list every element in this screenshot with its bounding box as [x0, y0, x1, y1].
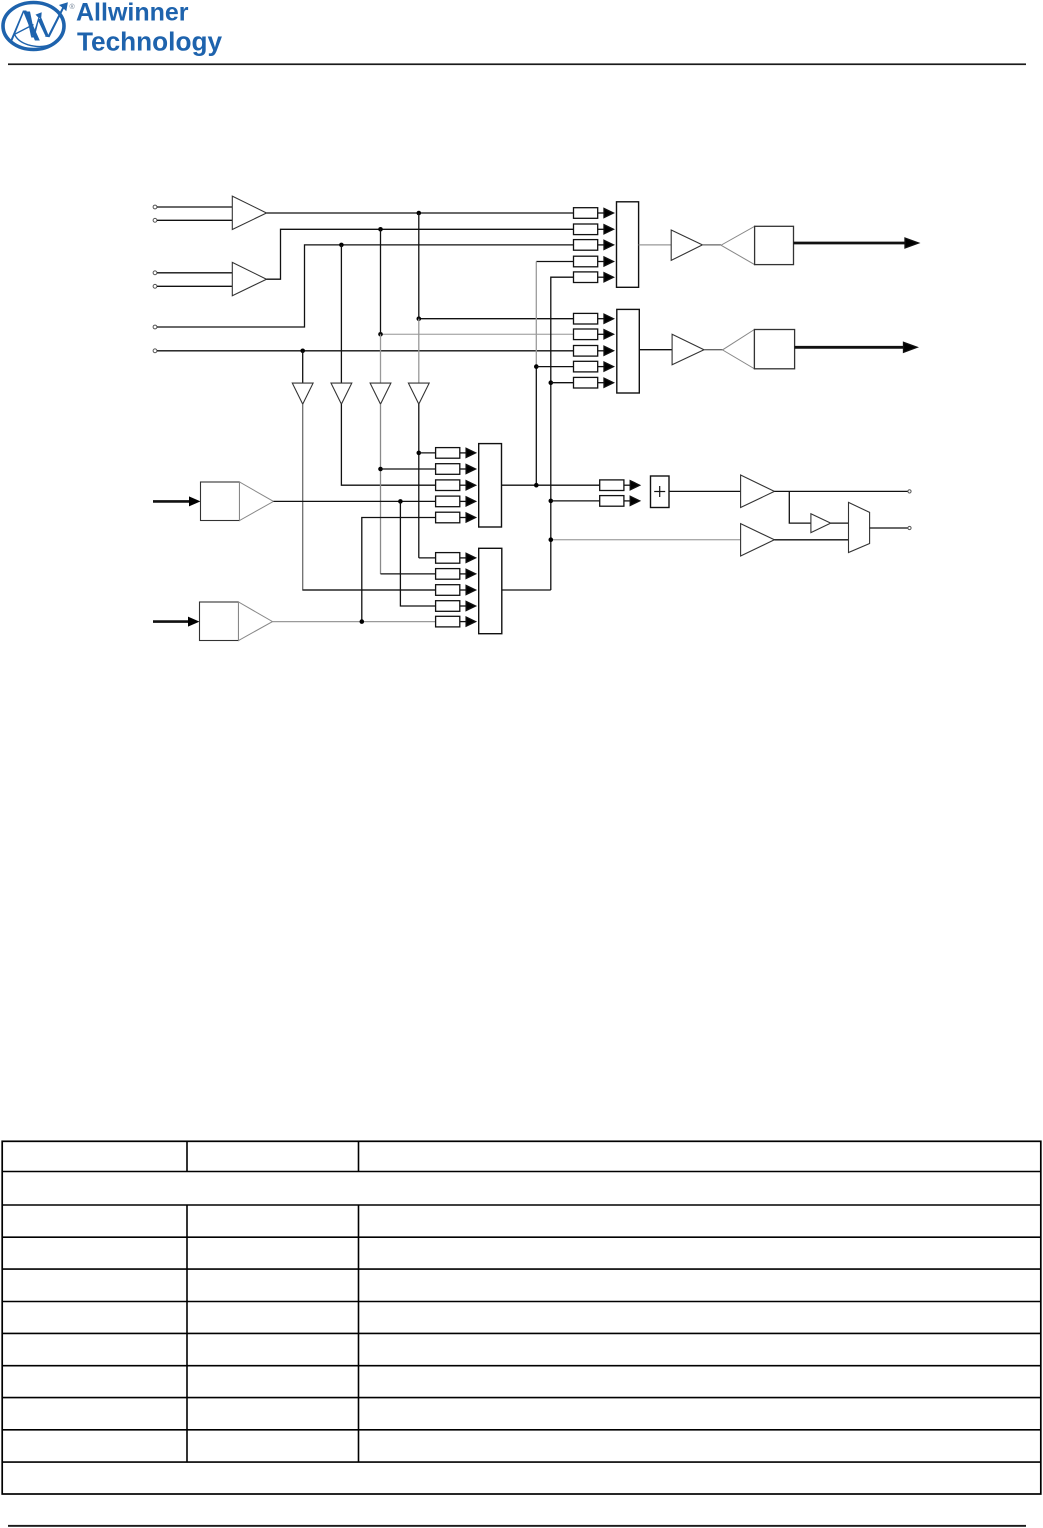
inverter B2: [331, 383, 352, 404]
wire gray continuation to B4: [418, 319, 420, 383]
mixer M2 output mixer right: [617, 309, 640, 393]
junction: [360, 619, 365, 624]
input terminal LINEINL-N: [153, 218, 157, 222]
resistor R24: [574, 361, 614, 372]
wire: [157, 206, 232, 208]
output terminal: [908, 526, 911, 529]
input terminal LINEINL-P: [153, 205, 157, 209]
wire bus to ADC right amp (muted): [551, 539, 741, 541]
junction: [378, 332, 383, 337]
logo letter A: [10, 11, 24, 41]
mixer M1 output mixer left: [617, 202, 639, 287]
resistor R31: [436, 448, 476, 459]
resistor R14: [574, 256, 614, 267]
input terminal FMINR: [153, 349, 157, 353]
logo Allwinner Technology: [3, 0, 222, 56]
wire M1 output to headphone amp (muted): [639, 244, 672, 246]
junction: [534, 364, 539, 369]
amp small digital gain: [811, 514, 831, 533]
resistor R41: [436, 553, 476, 564]
junction: [417, 211, 422, 216]
wire branch down to digital amp: [789, 491, 811, 523]
mux ADC select: [849, 502, 870, 552]
junction: [339, 243, 344, 248]
amp ADC right: [741, 524, 775, 556]
wire: [157, 272, 232, 274]
input terminal LINEINR-N: [153, 284, 157, 288]
wire m4row3 black part: [303, 589, 436, 591]
wire to mixer M3 row1: [419, 452, 436, 454]
resistor R22: [574, 329, 614, 340]
wire M4 output up the bus: [502, 589, 551, 591]
wire ADC right output to mux: [774, 539, 848, 541]
junction: [378, 227, 383, 232]
junction: [300, 349, 305, 354]
junction: [398, 499, 403, 504]
junction: [417, 451, 422, 456]
resistor R35: [436, 512, 476, 523]
wire M2 output to headphone amp: [639, 349, 672, 351]
amp PA right: [672, 334, 704, 365]
mixer M4 ADC mixer right: [479, 548, 502, 633]
wire PA to driver: [702, 244, 721, 246]
junction: [549, 380, 554, 385]
junction: [417, 316, 422, 321]
amp PA left: [671, 230, 702, 260]
summer S1: [651, 476, 670, 508]
wire A1 output to mixer M1 row1: [267, 212, 574, 214]
resistor R21: [574, 313, 614, 324]
junction: [549, 537, 554, 542]
logo letter W with arrow: [26, 12, 34, 38]
wire down from A2 node: [380, 229, 382, 334]
resistor R34: [436, 496, 476, 507]
output arrow HPOUTR: [795, 346, 905, 349]
wire M2 row5 from bus: [551, 382, 574, 384]
junction: [378, 467, 383, 472]
wire M3 row5 from MIC2 node: [362, 518, 436, 622]
wire FMINL to mixer M1 row3: [157, 245, 574, 327]
wire B3 down bus: [380, 404, 382, 574]
inverter B3: [370, 383, 391, 404]
wire down from FMINL node: [340, 245, 342, 383]
wire MIC1 to mixer M3 row4: [274, 500, 436, 502]
wire M1 row4 from bus: [536, 261, 573, 263]
wire M2 row2 from node (muted): [381, 333, 574, 335]
wire down from A1 node: [418, 213, 420, 319]
wire gray continuation to B3: [380, 334, 382, 383]
inverter B1: [292, 383, 313, 404]
output arrow HPOUTL: [794, 242, 907, 245]
wire S1 to ADC amp: [669, 490, 741, 492]
wire B1 to mixer M4 row3: [303, 404, 436, 590]
wire M2 row1 from node: [419, 318, 574, 320]
resistor R15: [574, 272, 614, 283]
resistor R13: [574, 240, 614, 251]
junction: [549, 499, 554, 504]
wire to mixer M4 row2: [381, 573, 436, 575]
mic amp MIC2 boost: [200, 602, 239, 641]
wire MIC2 to mixer M4 row5 (muted): [273, 621, 436, 623]
amp ADC left: [741, 475, 775, 508]
microphone input arrow MIC2: [153, 620, 190, 623]
wire B4 down bus: [418, 404, 420, 558]
wire vertical bus upper (muted): [535, 262, 537, 367]
resistor R45: [436, 616, 476, 627]
wire vertical bus from L-ADC-mixer output: [535, 367, 537, 486]
resistor R52: [600, 496, 640, 507]
resistor R32: [436, 464, 476, 475]
resistor R23: [574, 346, 614, 357]
resistor R42: [436, 569, 476, 580]
wire to mux: [831, 522, 849, 524]
wire ADC left output: [774, 490, 909, 492]
mic amp MIC1 boost: [201, 482, 240, 521]
microphone input arrow MIC1: [153, 500, 191, 503]
footer rule: [8, 1525, 1026, 1527]
svg-text:Allwinner: Allwinner: [76, 0, 189, 27]
wire to mixer M4 row1: [419, 557, 436, 559]
driver DRV left: [721, 226, 755, 264]
wire PA to driver: [704, 349, 723, 351]
wire A2 output to mixer M1 row2: [267, 229, 574, 279]
wire FMINR to mixer M2 row3: [157, 350, 574, 352]
wire MIC1 node down to M4 row4: [400, 501, 435, 606]
wire: [157, 285, 232, 287]
driver DRV right: [723, 330, 755, 369]
wire M3 output: [502, 484, 600, 486]
wire M2 row4 from bus: [536, 366, 573, 368]
wire bus to summer input B: [551, 500, 600, 502]
resistor R44: [436, 601, 476, 612]
wire mux output: [870, 527, 909, 529]
inverter B4: [408, 383, 429, 404]
input terminal LINEINR-P: [153, 271, 157, 275]
wire B2 to mixer M3 row3: [341, 404, 435, 485]
resistor R12: [574, 224, 614, 235]
resistor R51: [600, 480, 640, 491]
header rule: [8, 63, 1026, 65]
wire vertical bus from R-mixer output: [551, 277, 574, 590]
input terminal FMINL: [153, 325, 157, 329]
logo swoosh: [15, 25, 64, 47]
output terminal: [908, 490, 911, 493]
buffer amp A2: [232, 262, 266, 295]
wire down from FMINR node: [302, 351, 304, 383]
logo oval ring: [3, 3, 64, 50]
svg-text:®: ®: [70, 3, 76, 11]
mixer M3 ADC mixer left: [479, 444, 502, 527]
wire to mixer M3 row2: [381, 468, 436, 470]
svg-text:Technology: Technology: [77, 26, 222, 56]
resistor R25: [574, 377, 614, 388]
junction: [534, 483, 539, 488]
resistor R11: [574, 208, 614, 219]
buffer amp A1: [232, 196, 266, 229]
resistor R43: [436, 585, 476, 596]
wire: [157, 219, 232, 221]
table register description: [2, 1141, 1041, 1494]
resistor R33: [436, 480, 476, 491]
